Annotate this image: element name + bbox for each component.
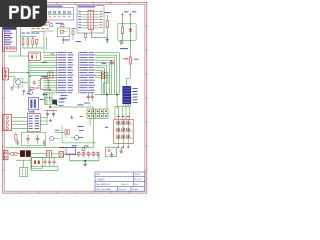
J4 to U4 wires [12,116,28,118]
cluster wires [61,125,63,142]
diode D1 [35,32,39,35]
transistor Q2 [49,136,53,140]
VCC symbol 2 [129,13,131,18]
left rail A [31,156,64,158]
resistor R5 [121,18,123,27]
bus end dot 1 [43,94,44,95]
lattice top label [78,104,84,107]
opto group box [57,28,70,37]
inline resistor R10 [110,61,113,63]
Q2 base label [55,129,60,132]
RV1 stub [23,160,25,167]
resistor R4 [104,11,110,14]
IC U3 right pin labels [131,88,133,90]
capacitors C13-C15 [44,157,46,161]
resistor R15 [15,135,17,141]
resistor net stubs [107,73,109,83]
mid-left bottom labels [27,92,30,95]
J1 side bus [20,28,22,57]
svg-text:File: sch1.ddb: File: sch1.ddb [96,188,111,191]
svg-text:Title: Title [96,174,100,176]
keypad buttons S1-S9 [117,119,119,144]
bus end dot 2 [46,94,47,95]
fuse F1 [11,152,14,155]
IC U3 [122,86,131,104]
capacitor C4 [47,110,49,113]
sheet border inner [4,4,145,191]
red rail [44,109,57,111]
svg-text:Drawn: Drawn [132,189,139,191]
snubber group box [21,133,45,146]
ground sym 2 [43,140,45,143]
header J2 down wire [91,30,93,38]
drop to lattice 2 [116,95,118,110]
power red rail [63,153,99,155]
crystal T1 [47,150,52,157]
diode D10 [72,27,76,30]
power table box [47,6,63,7]
lattice bottom label [78,125,84,128]
Q3 labels [79,129,84,132]
buzzer LS1 [52,100,57,105]
bottom long rail [6,146,93,148]
IC U4 right stubs [40,116,47,118]
ground G7 [106,34,108,40]
red mark [80,115,83,118]
C6 C7 label [84,102,90,105]
header J2 box [77,5,104,33]
svg-text:Rev 1.0: Rev 1.0 [134,179,142,181]
power connector J5 [3,151,8,160]
VCC symbol 1 [121,13,123,18]
varistor RV1 [20,167,28,176]
ground G8 [120,40,122,42]
IC U4 [27,113,40,131]
junction dot 2 [116,94,118,96]
capacitor C16 [33,81,35,82]
ground sym 3 [50,119,52,121]
resistor bottom rail [22,47,43,49]
ISP pad box [48,72,53,78]
capacitor C6 [87,93,89,97]
junction dot 1 [106,94,108,96]
ground sym K2 [111,152,113,155]
resistor R14 [85,34,87,38]
resistor R1 [21,32,25,35]
diode D9 [59,151,63,157]
PDF badge [0,0,47,27]
header J2 connector body [88,10,94,29]
border zone ticks [20,2,22,4]
U2 pins [38,79,41,81]
rectifier group box [32,157,42,168]
resistor R12 [65,130,67,135]
ground junction dot [84,160,86,162]
keypad label [105,126,108,129]
drop to lattice 1 [106,95,108,110]
J3 wire dots [28,72,29,73]
bridge wires [17,153,20,155]
left rail verticals [30,157,32,170]
net labels column B [79,51,87,54]
green group box [46,98,52,105]
resistor R13 [30,87,34,89]
ground sym 1 [17,140,19,143]
table-area drop wires [43,31,45,53]
ground U2 [11,86,13,88]
speaker J3 [3,68,9,80]
key net label [120,47,128,50]
relay wires [8,55,29,57]
bridge B1 [20,150,25,157]
mid-left wires [9,72,29,74]
pin column A [56,52,58,94]
lattice bottom wire [89,118,91,126]
filter capacitors C8-C12 [78,151,80,152]
svg-text:Size B0905-1: Size B0905-1 [96,183,110,186]
transistor Q4 [16,80,21,85]
series resistors R6-R8 [95,72,102,74]
resistor R2 [26,32,30,35]
ground sym 4 [84,161,86,165]
capacitor C1 [23,89,25,91]
ground sym 6 [71,115,73,117]
keypad frame [114,119,133,143]
relay K2 box [105,147,116,156]
mid rail junctions [49,106,50,107]
keypad feed wires [114,107,116,120]
LED D8 [82,148,85,151]
resistor R11 [123,57,128,60]
svg-text:<A2>: <A2> [97,177,105,181]
left bus verticals [27,60,29,92]
relay K1 [29,52,41,60]
terminal block J4 [3,114,12,130]
capacitor C7 [91,93,93,97]
header J2 pin stubs and labels [82,11,88,13]
right drop wire [92,107,94,147]
power green rail mid [16,159,31,161]
green box around D7 R5 [118,24,136,40]
below band labels [61,94,68,97]
buzzer labels [59,98,65,101]
resistor R3 [31,32,35,35]
net labels column A [58,51,67,54]
ground sym 5 [120,147,122,151]
sheet border outer [2,2,147,193]
svg-text:No 03: No 03 [134,174,140,176]
svg-text:Sheet of: Sheet of [119,188,127,191]
R11 to U3 wire [129,64,131,78]
connector J1 pins [3,47,6,48]
LED D7 [129,18,131,28]
mid green rail [50,106,93,108]
under-badge wire [31,30,44,32]
misc parts below table [49,23,53,27]
pre-band labels [62,39,70,42]
op-amp U2 [41,75,47,78]
MCU left bus wires [43,52,56,54]
IC U4 label [29,110,35,113]
MCU right staircase wires [95,52,119,54]
left rail B [31,165,58,167]
resistor top rail [21,35,37,37]
pin column B [77,52,79,94]
svg-text:Sht 1: Sht 1 [134,184,139,186]
IC U3 bottom pin wires [123,104,125,107]
power return rail [70,160,99,162]
band bottom bus drops [44,93,46,105]
capacitor C5 [53,110,55,113]
transistor Q1 [29,91,33,95]
return rail drops [69,154,71,161]
transistor Q3 [74,135,78,139]
DIP switch SW1 lattice [87,108,108,110]
D7 to R11 wire [129,40,131,57]
U2 junction dot [49,89,50,90]
left rail C [31,170,58,172]
svg-text:Dwn 25: Dwn 25 [122,184,130,186]
capacitor C3 [36,134,38,138]
capacitor C2 [27,134,29,138]
connector J1 net labels [4,30,11,33]
under-badge net row [32,27,35,30]
title block frame [95,172,145,191]
connector J1 list box [3,27,17,51]
crystal Y1 module [28,98,38,110]
PDF badge text [9,6,19,19]
regulator U5 [72,144,77,147]
diode array D2-D6 [48,13,73,15]
connector J1 title bar [3,28,16,30]
